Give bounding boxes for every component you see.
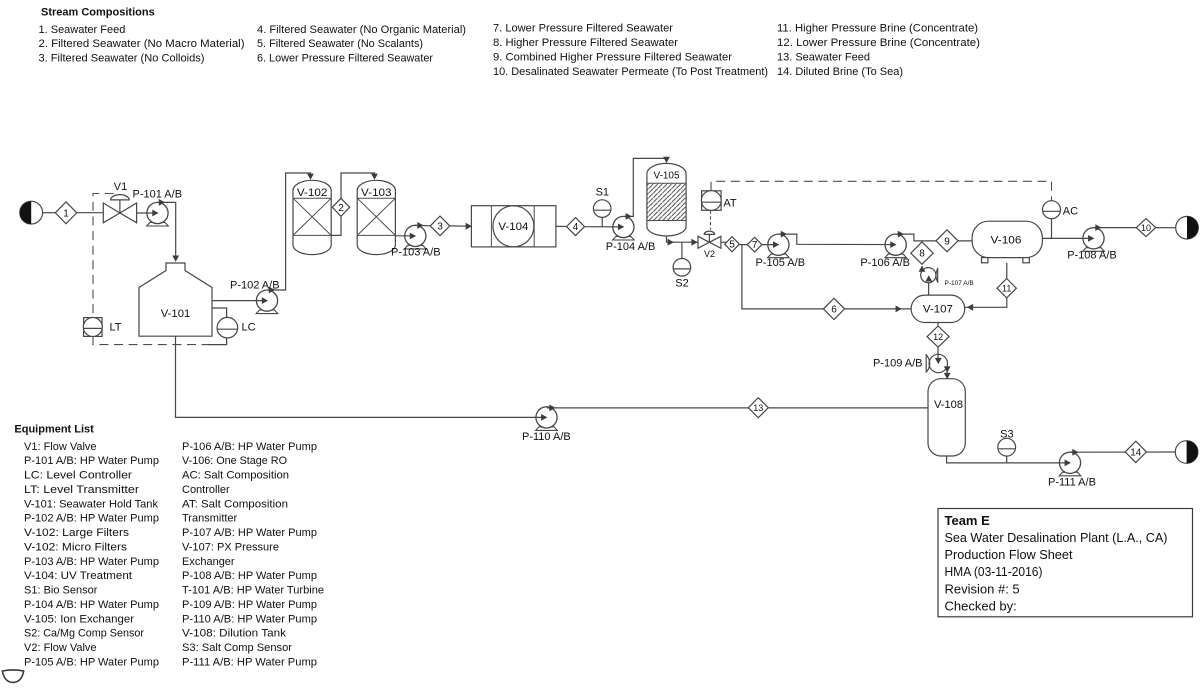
dashed signal LT to LC bottom run: [93, 336, 208, 344]
svg-text:P-101 A/B: P-101 A/B: [133, 189, 183, 201]
svg-text:P-111 A/B: P-111 A/B: [1048, 476, 1096, 488]
pump P-108 A/B: [1083, 228, 1105, 252]
wire S1 stem: [601, 217, 603, 227]
wire pump P-103 outlet to node 3: [415, 224, 430, 227]
wire V-107 top to pump P-107: [928, 283, 930, 295]
valve V1 flow valve: [103, 181, 136, 223]
svg-text:P-103 A/B: P-103 A/B: [391, 247, 441, 259]
svg-text:LC: LC: [242, 322, 256, 334]
instrument AC salt composition controller: [1043, 201, 1079, 219]
svg-text:2: 2: [338, 203, 344, 214]
svg-text:AT: Salt Composition: AT: Salt Composition: [182, 498, 288, 510]
wire V-104 outlet to node 4: [556, 225, 567, 227]
wire pump P-111 outlet stream 14 to sea sink: [1071, 451, 1176, 453]
svg-text:9: 9: [944, 236, 950, 247]
tank V-101 seawater hold tank: [139, 263, 212, 336]
svg-text:8. Higher Pressure Filtered Se: 8. Higher Pressure Filtered Seawater: [493, 37, 678, 49]
wire node 3 to V-104 inlet: [450, 225, 467, 227]
svg-text:V-108: Dilution Tank: V-108: Dilution Tank: [182, 628, 287, 640]
svg-text:P-102 A/B: P-102 A/B: [230, 280, 280, 292]
svg-text:Stream Compositions: Stream Compositions: [41, 6, 155, 18]
svg-text:V-108: V-108: [934, 399, 963, 411]
svg-text:Exchanger: Exchanger: [182, 556, 235, 568]
svg-text:10. Desalinated Seawater Perme: 10. Desalinated Seawater Permeate (To Po…: [493, 66, 768, 78]
svg-text:AC: AC: [1063, 206, 1078, 218]
svg-text:V2: Flow Valve: V2: Flow Valve: [24, 642, 97, 654]
svg-text:4. Filtered Seawater (No Organ: 4. Filtered Seawater (No Organic Materia…: [257, 24, 466, 36]
pump P-109 A/B: [926, 354, 947, 373]
svg-text:P-108 A/B: P-108 A/B: [1067, 249, 1117, 261]
node 2 stream diamond: [332, 198, 349, 216]
svg-text:11. Higher Pressure Brine (Con: 11. Higher Pressure Brine (Concentrate): [777, 23, 978, 35]
wire diamond 1 to valve V1: [77, 212, 104, 214]
svg-text:LC: Level Controller: LC: Level Controller: [24, 470, 132, 482]
svg-text:P-103 A/B: HP Water Pump: P-103 A/B: HP Water Pump: [24, 556, 159, 568]
dashed signal AT to AC controller: [711, 181, 1052, 200]
equipment list legend: [14, 423, 324, 668]
svg-text:12. Lower Pressure Brine (Conc: 12. Lower Pressure Brine (Concentrate): [777, 37, 980, 49]
svg-text:V-105: V-105: [654, 170, 680, 181]
svg-text:P-111 A/B: HP Water Pump: P-111 A/B: HP Water Pump: [182, 657, 317, 669]
node 11 stream diamond: [997, 279, 1016, 298]
svg-text:V-102: Large Filters: V-102: Large Filters: [24, 527, 130, 539]
pump P-105 A/B: [768, 234, 790, 258]
svg-text:S2: Ca/Mg Comp Sensor: S2: Ca/Mg Comp Sensor: [24, 628, 144, 640]
wire pump P-108 outlet to node 10 and sea sink: [1094, 227, 1176, 229]
svg-text:P-106 A/B: HP Water Pump: P-106 A/B: HP Water Pump: [182, 441, 317, 453]
svg-text:4: 4: [573, 222, 579, 233]
svg-text:P-104 A/B: P-104 A/B: [606, 241, 656, 253]
svg-text:V-106: V-106: [991, 235, 1022, 247]
svg-text:V-104: V-104: [498, 221, 528, 233]
pump P-103 A/B: [405, 225, 427, 249]
pump P-101 A/B: [147, 202, 169, 226]
svg-text:V2: V2: [704, 249, 715, 259]
svg-text:5: 5: [729, 240, 735, 251]
svg-text:Sea Water Desalination Plant (: Sea Water Desalination Plant (L.A., CA): [945, 530, 1168, 545]
pump P-111 A/B: [1059, 452, 1081, 476]
wire V-107 bottom through node 12 to pump P-109: [937, 323, 939, 363]
vessel V-108 dilution tank: [928, 379, 965, 456]
wire V-101 bottom long run to pump P-110: [176, 336, 547, 417]
svg-text:P-109 A/B: P-109 A/B: [873, 358, 923, 370]
wire V-106 bottom through node 11 to V-107: [965, 263, 1007, 308]
pump P-104 A/B: [613, 216, 635, 240]
wire pump P-109 outlet to V-108 top: [946, 367, 948, 374]
instrument S1 bio sensor: [593, 186, 611, 217]
svg-text:P-110 A/B: P-110 A/B: [522, 431, 571, 443]
svg-text:HMA (03-11-2016): HMA (03-11-2016): [945, 564, 1043, 579]
instrument LT level transmitter: [83, 318, 122, 337]
svg-text:P-108 A/B: HP Water Pump: P-108 A/B: HP Water Pump: [182, 570, 317, 582]
instrument LC level controller: [217, 317, 256, 338]
vessel V-107 PX pressure exchanger: [911, 295, 965, 322]
svg-text:Equipment List: Equipment List: [14, 423, 94, 435]
node 10 stream diamond: [1136, 219, 1155, 237]
svg-text:P-102 A/B: HP Water Pump: P-102 A/B: HP Water Pump: [24, 513, 159, 525]
svg-text:13. Seawater Feed: 13. Seawater Feed: [777, 51, 870, 63]
svg-text:13: 13: [753, 403, 763, 413]
svg-text:S1: S1: [596, 186, 609, 198]
svg-text:V-106: One Stage RO: V-106: One Stage RO: [182, 455, 287, 467]
svg-text:V-107: PX Pressure: V-107: PX Pressure: [182, 542, 279, 554]
pump P-102 A/B: [256, 290, 278, 314]
node 6 stream diamond: [823, 298, 844, 319]
svg-text:P-107 A/B: HP Water Pump: P-107 A/B: HP Water Pump: [182, 527, 317, 539]
source seawater feed: [20, 201, 43, 224]
title block: [938, 509, 1193, 617]
svg-text:10: 10: [1141, 223, 1151, 233]
wire S2 stem: [681, 242, 683, 258]
svg-text:V1: Flow Valve: V1: Flow Valve: [24, 441, 97, 453]
wire LC drop to dashed run: [208, 338, 227, 345]
dashed signal AT to valve V2: [710, 211, 712, 230]
valve V2 flow valve: [698, 231, 721, 259]
svg-text:P-105 A/B: P-105 A/B: [756, 257, 806, 269]
svg-text:P-110 A/B: HP Water Pump: P-110 A/B: HP Water Pump: [182, 613, 317, 625]
svg-text:P-105 A/B: HP Water Pump: P-105 A/B: HP Water Pump: [24, 657, 159, 669]
node 5 stream diamond: [725, 237, 740, 252]
wire pump P-104 outlet riser to V-105 top: [624, 158, 667, 216]
wire valve V1 to pump P-101: [137, 212, 158, 214]
vessel V-102 large filter: [293, 180, 331, 254]
svg-text:Revision #: 5: Revision #: 5: [945, 581, 1020, 596]
svg-text:V-104: UV Treatment: V-104: UV Treatment: [24, 570, 132, 582]
wire pump P-110 outlet stream 13 to V-108: [547, 407, 928, 409]
wire node 4 to pump P-104 with S1 tee: [585, 226, 624, 228]
arrowheads on wires: [152, 157, 1101, 467]
wire AC stem: [1051, 219, 1053, 239]
svg-text:P-104 A/B: HP Water Pump: P-104 A/B: HP Water Pump: [24, 599, 159, 611]
svg-text:LT: Level Transmitter: LT: Level Transmitter: [24, 484, 139, 496]
instrument S2 Ca/Mg comp sensor: [673, 259, 691, 290]
wire V-106 outlet to pump P-108 with AC tee: [1042, 237, 1093, 239]
wire pump P-101 outlet to tank V-101 top: [158, 202, 176, 258]
svg-text:8: 8: [919, 249, 925, 260]
dashed signal LT to valve V1: [93, 194, 114, 319]
svg-text:V-101: V-101: [161, 308, 191, 320]
wire pump P-105 outlet loop to pump P-106: [778, 234, 895, 245]
node 1 stream diamond: [55, 202, 76, 224]
pump P-110 A/B: [536, 407, 558, 431]
wire V-101 level sense to LC: [212, 308, 227, 318]
wire V-103 outlet to pump P-103: [395, 235, 415, 237]
instrument AT salt composition transmitter: [701, 191, 737, 211]
pump P-107 A/B booster: [921, 268, 938, 283]
node 13 stream diamond: [748, 398, 768, 418]
svg-text:1: 1: [63, 208, 69, 219]
svg-text:11: 11: [1002, 283, 1011, 293]
svg-text:S3: Salt Comp Sensor: S3: Salt Comp Sensor: [182, 642, 292, 654]
svg-text:5. Filtered Seawater (No Scala: 5. Filtered Seawater (No Scalants): [257, 38, 423, 50]
svg-text:Team E: Team E: [945, 513, 991, 528]
node 7 stream diamond: [747, 237, 762, 252]
wire V-105 bottom outlet run to pump P-105: [667, 236, 779, 245]
svg-text:S3: S3: [1000, 429, 1013, 441]
wire pump P-102 outlet riser to V-102 top: [267, 173, 311, 290]
node 9 stream diamond: [936, 230, 958, 252]
svg-text:P-106 A/B: P-106 A/B: [860, 257, 910, 269]
sink to post treatment (stream 10): [1176, 216, 1199, 239]
bottom-left cup symbol: [2, 670, 23, 682]
svg-text:3: 3: [437, 221, 443, 232]
svg-text:P-109 A/B: HP Water Pump: P-109 A/B: HP Water Pump: [182, 599, 317, 611]
svg-text:14: 14: [1130, 447, 1142, 458]
node 8 stream diamond: [911, 242, 933, 264]
node 12 stream diamond: [927, 326, 949, 347]
svg-text:6. Lower Pressure Filtered Sea: 6. Lower Pressure Filtered Seawater: [257, 53, 433, 65]
svg-text:V-105: Ion Exchanger: V-105: Ion Exchanger: [24, 613, 134, 625]
svg-text:2. Filtered Seawater (No Macro: 2. Filtered Seawater (No Macro Material): [39, 38, 245, 50]
svg-text:3. Filtered Seawater (No Collo: 3. Filtered Seawater (No Colloids): [39, 53, 205, 65]
node 3 stream diamond: [430, 216, 450, 236]
svg-text:6: 6: [831, 304, 837, 315]
svg-text:T-101 A/B: HP Water Turbine: T-101 A/B: HP Water Turbine: [182, 585, 324, 597]
vessel V-103 micro filter: [357, 180, 395, 254]
svg-text:9. Combined Higher Pressure Fi: 9. Combined Higher Pressure Filtered Sea…: [493, 51, 732, 63]
svg-text:14. Diluted Brine (To Sea): 14. Diluted Brine (To Sea): [777, 66, 903, 78]
wire V-102 outlet through node 2 to V-103 top: [331, 173, 374, 235]
svg-text:7: 7: [752, 240, 758, 251]
wire source to diamond 1: [43, 212, 56, 214]
node 14 stream diamond: [1125, 441, 1146, 462]
svg-text:12: 12: [933, 332, 943, 342]
stream compositions legend: [39, 6, 981, 77]
svg-text:Transmitter: Transmitter: [182, 513, 238, 525]
svg-text:AC: Salt Composition: AC: Salt Composition: [182, 470, 289, 482]
svg-text:Checked by:: Checked by:: [945, 598, 1017, 613]
svg-text:S2: S2: [675, 277, 688, 289]
svg-text:V-102: Micro Filters: V-102: Micro Filters: [24, 542, 128, 554]
wire junction drop to lower header: [742, 245, 911, 309]
svg-text:LT: LT: [110, 322, 122, 334]
svg-text:Production Flow Sheet: Production Flow Sheet: [945, 547, 1073, 562]
node 4 stream diamond: [567, 218, 585, 236]
svg-text:V1: V1: [114, 181, 127, 193]
svg-text:V-107: V-107: [923, 303, 953, 315]
svg-text:P-101 A/B: HP Water Pump: P-101 A/B: HP Water Pump: [24, 455, 159, 467]
svg-text:1. Seawater Feed: 1. Seawater Feed: [39, 24, 126, 36]
sink to sea (stream 14): [1175, 441, 1198, 464]
svg-text:V-101: Seawater Hold Tank: V-101: Seawater Hold Tank: [24, 498, 158, 510]
wire S3 stem: [1006, 456, 1008, 463]
svg-text:AT: AT: [723, 197, 737, 209]
vessel V-106 one stage RO: [972, 221, 1042, 263]
wire V-108 bottom to pump P-111 with S3 tee: [947, 456, 1070, 463]
wire P-107 riser to node 8: [921, 266, 923, 271]
svg-text:Controller: Controller: [182, 484, 230, 496]
vessel V-104 UV treatment: [471, 206, 556, 247]
wire V-101 outlet to pump P-102: [212, 300, 267, 302]
svg-text:7. Lower Pressure Filtered Sea: 7. Lower Pressure Filtered Seawater: [493, 23, 673, 35]
svg-text:V-102: V-102: [297, 187, 328, 199]
svg-text:S1: Bio Sensor: S1: Bio Sensor: [24, 585, 98, 597]
vessel V-105 ion exchanger: [647, 163, 686, 236]
svg-text:P-107 A/B: P-107 A/B: [945, 280, 974, 287]
instrument S3 salt comp sensor: [998, 429, 1016, 457]
pump P-106 A/B: [885, 234, 907, 258]
wire pump P-106 outlet loop to V-106 through nodes 8,9: [896, 234, 972, 241]
svg-text:V-103: V-103: [361, 187, 392, 199]
